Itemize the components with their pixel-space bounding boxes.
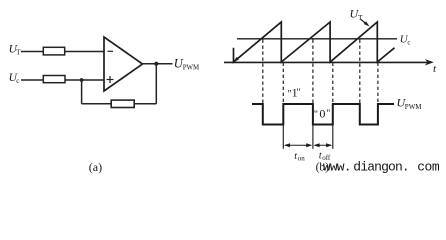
svg-text:0: 0 [319, 106, 325, 120]
svg-text:": " [314, 110, 318, 121]
svg-text:c: c [407, 38, 410, 46]
svg-text:www.: www. [323, 160, 351, 175]
svg-text:(a): (a) [89, 160, 102, 174]
svg-text:c: c [16, 77, 19, 85]
svg-text:on: on [298, 155, 306, 163]
svg-text:PWM: PWM [183, 64, 199, 71]
svg-text:T: T [16, 49, 21, 57]
svg-text:com: com [417, 160, 440, 175]
svg-text:.: . [402, 160, 409, 175]
svg-text:diangon: diangon [353, 160, 402, 175]
svg-text:": " [288, 89, 292, 100]
svg-text:": " [326, 109, 330, 120]
svg-text:": " [296, 88, 300, 99]
svg-text:PWM: PWM [405, 103, 423, 111]
